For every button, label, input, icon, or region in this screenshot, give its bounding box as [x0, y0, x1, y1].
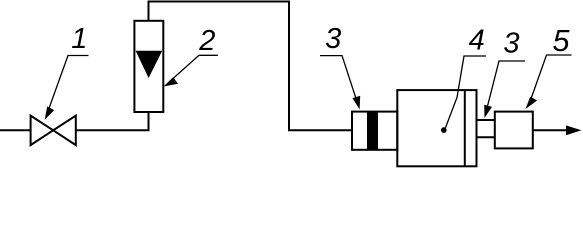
svg-text:1: 1 — [71, 23, 87, 55]
filter F1 body — [352, 112, 397, 150]
label 1 — [71, 23, 87, 55]
chamber U1 body — [397, 90, 476, 166]
wire outlet with arrow — [533, 125, 582, 135]
leader to valve — [45, 56, 89, 120]
svg-text:3: 3 — [503, 28, 519, 60]
leader to detector — [526, 55, 572, 109]
detector U2 body — [495, 112, 533, 149]
leader to stub — [484, 61, 525, 118]
wire stub chamber to detector — [477, 120, 495, 137]
wire inlet pipe — [0, 129, 31, 131]
label 3 second — [503, 28, 519, 60]
rotameter float — [136, 51, 163, 78]
svg-text:4: 4 — [469, 25, 485, 57]
label 5 — [553, 24, 571, 58]
svg-text:3: 3 — [325, 23, 341, 55]
wire rotameter top loop — [149, 2, 353, 131]
label 3 first — [325, 23, 341, 55]
svg-text:2: 2 — [198, 25, 215, 57]
filter F1 element — [367, 112, 378, 150]
leader to chamber dot — [441, 56, 486, 133]
valve V1 — [31, 116, 76, 146]
leader to rotameter — [164, 55, 218, 86]
label 4 — [469, 25, 485, 57]
wire valve to rotameter riser — [76, 112, 149, 130]
chamber U1 inner wall — [464, 90, 466, 166]
leader to filter — [320, 56, 360, 110]
rotameter FL1 body — [134, 21, 163, 112]
svg-text:5: 5 — [553, 24, 571, 58]
label 2 — [198, 25, 215, 57]
